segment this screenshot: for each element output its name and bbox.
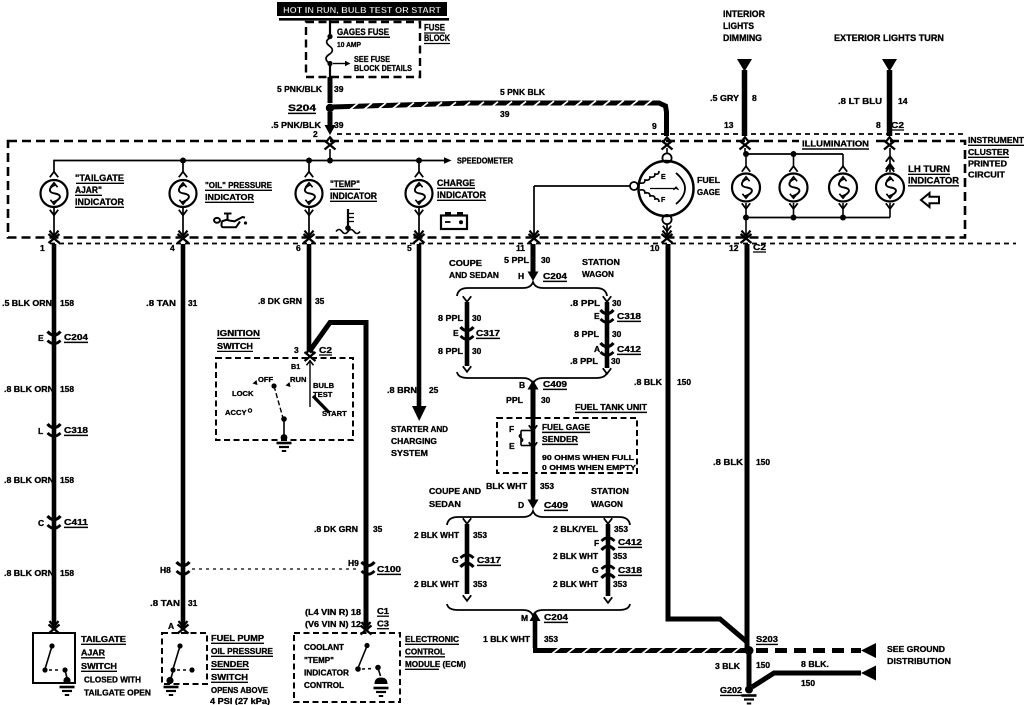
wire .5 GRY 8 to pin 13 xyxy=(742,70,748,136)
svg-text:C2: C2 xyxy=(753,242,766,252)
label .8 BLK ORN 158 third xyxy=(4,568,74,578)
svg-text:353: 353 xyxy=(614,524,628,534)
svg-text:35: 35 xyxy=(315,296,325,306)
label IGNITION SWITCH xyxy=(217,328,260,351)
svg-text:G: G xyxy=(452,555,459,565)
svg-text:C204: C204 xyxy=(544,612,568,622)
svg-text:DIMMING: DIMMING xyxy=(723,33,762,43)
svg-text:.8 TAN: .8 TAN xyxy=(150,598,180,608)
cluster connector dashed line top C2 xyxy=(337,133,964,135)
fuel pump switch contacts xyxy=(166,643,194,684)
svg-text:5 PPL: 5 PPL xyxy=(504,255,529,265)
svg-text:10: 10 xyxy=(650,243,660,253)
svg-text:L: L xyxy=(38,426,43,436)
svg-text:14: 14 xyxy=(898,96,908,106)
svg-text:E: E xyxy=(509,441,515,451)
svg-text:"TEMP": "TEMP" xyxy=(304,656,334,665)
svg-text:9: 9 xyxy=(652,121,657,131)
wire .8 LT BLU 14 to pin 8 xyxy=(887,70,893,136)
svg-text:"TAILGATE: "TAILGATE xyxy=(75,173,124,183)
svg-text:8: 8 xyxy=(876,120,881,130)
svg-text:30: 30 xyxy=(612,329,622,339)
svg-text:39: 39 xyxy=(334,84,344,94)
wagon branch wire 2 BLK/YEL 353 xyxy=(604,518,612,603)
illumination top bus xyxy=(743,151,843,166)
svg-text:C411: C411 xyxy=(64,517,88,527)
svg-text:353: 353 xyxy=(613,551,627,561)
connector C317 pin G lower xyxy=(452,555,501,567)
svg-text:E: E xyxy=(594,311,600,321)
svg-text:SENDER: SENDER xyxy=(211,659,250,669)
svg-text:5 PNK BLK: 5 PNK BLK xyxy=(500,87,546,97)
svg-text:E: E xyxy=(661,174,666,181)
tailgate ajar switch box xyxy=(33,633,75,683)
harness merge brace lower xyxy=(447,604,630,616)
LH turn arrow icon xyxy=(921,193,939,207)
connector C318 pin L xyxy=(38,424,88,436)
off-page arrow: interior lights dimming xyxy=(737,59,752,72)
svg-text:LOCK: LOCK xyxy=(232,389,254,398)
cluster bottom pin labels xyxy=(40,242,766,253)
svg-text:AJAR": AJAR" xyxy=(75,185,102,195)
label 5 PNK/BLK 39 upper xyxy=(277,84,344,94)
svg-text:30: 30 xyxy=(541,395,551,405)
pin 13 entry arrow xyxy=(740,137,751,155)
svg-text:90 OHMS WHEN FULL: 90 OHMS WHEN FULL xyxy=(542,453,634,462)
svg-text:C318: C318 xyxy=(64,425,88,435)
svg-text:SPEEDOMETER: SPEEDOMETER xyxy=(457,156,513,166)
connector C409 pin D (arrow down) xyxy=(518,500,568,511)
svg-text:CLUSTER: CLUSTER xyxy=(968,147,1010,157)
svg-text:CONTROL: CONTROL xyxy=(304,681,344,690)
pin 11 exit arrow xyxy=(529,231,540,243)
pin 2 entry arrow xyxy=(325,137,336,160)
pin 8 entry arrow xyxy=(884,137,895,172)
label .8 BLK ORN 158 second xyxy=(4,475,74,485)
label 3 C2 xyxy=(294,345,332,355)
off-page arrow: exterior lights turn xyxy=(882,59,897,72)
svg-text:C3: C3 xyxy=(377,619,389,629)
label 9 xyxy=(652,121,657,131)
svg-text:M: M xyxy=(521,613,528,623)
svg-text:C409: C409 xyxy=(544,500,568,510)
svg-text:FUEL TANK UNIT: FUEL TANK UNIT xyxy=(575,402,648,412)
pin 12 exit arrow xyxy=(741,231,752,243)
svg-text:(L4 VIN R) 18: (L4 VIN R) 18 xyxy=(305,608,362,617)
svg-text:H8: H8 xyxy=(160,565,171,575)
svg-text:C409: C409 xyxy=(543,379,567,389)
svg-text:150: 150 xyxy=(677,377,691,387)
wire PPL 30 to fuel tank unit xyxy=(531,389,536,418)
svg-text:CONTROL: CONTROL xyxy=(405,647,446,657)
svg-text:C318: C318 xyxy=(617,311,641,321)
svg-text:353: 353 xyxy=(540,481,554,491)
pin exit arrow under oil pressure indicator xyxy=(178,231,189,243)
label 5 PNK BLK 39 xyxy=(500,87,546,119)
wire 8 BLK 150 branch to ground distribution xyxy=(752,673,861,687)
label .8 DK GRN 35 xyxy=(258,296,325,306)
svg-text:HOT IN RUN, BULB TEST OR START: HOT IN RUN, BULB TEST OR START xyxy=(283,5,442,15)
svg-text:12: 12 xyxy=(729,243,739,253)
svg-text:3: 3 xyxy=(294,345,299,355)
wire: fuse to S204 xyxy=(329,66,331,103)
connector C204 pin E xyxy=(38,332,88,344)
svg-text:S203: S203 xyxy=(756,634,778,644)
svg-text:13: 13 xyxy=(724,120,734,130)
label ILLUMINATION xyxy=(799,137,873,149)
label 10 AMP xyxy=(337,40,361,49)
svg-text:INDICATOR: INDICATOR xyxy=(205,192,255,202)
connector C411 pin C xyxy=(38,516,88,528)
svg-text:2 BLK WHT: 2 BLK WHT xyxy=(414,530,460,540)
svg-text:FUEL PUMP: FUEL PUMP xyxy=(211,633,264,643)
svg-text:INDICATOR: INDICATOR xyxy=(75,197,124,207)
svg-text:(V6 VIN N) 12: (V6 VIN N) 12 xyxy=(305,620,362,629)
svg-text:SEE GROUND: SEE GROUND xyxy=(887,644,945,654)
svg-text:4: 4 xyxy=(170,243,175,253)
svg-text:"TEMP": "TEMP" xyxy=(330,179,360,189)
svg-text:STATION: STATION xyxy=(582,257,620,267)
svg-text:INDICATOR: INDICATOR xyxy=(304,669,349,678)
indicator lamp: oil pressure xyxy=(170,172,197,235)
svg-text:OPENS ABOVE: OPENS ABOVE xyxy=(211,685,268,695)
wire: header to gages fuse xyxy=(327,21,332,40)
svg-text:CHARGE: CHARGE xyxy=(437,178,475,188)
svg-text:8 PPL: 8 PPL xyxy=(438,313,463,323)
ECM entry arrow xyxy=(361,622,372,634)
svg-text:SYSTEM: SYSTEM xyxy=(391,448,428,458)
fuel tank unit dashed box xyxy=(497,418,637,473)
svg-text:8 BLK.: 8 BLK. xyxy=(801,659,829,669)
svg-text:150: 150 xyxy=(756,457,770,467)
wire .5 BLK ORN 158 tailgate circuit xyxy=(52,244,57,630)
svg-text:3 BLK: 3 BLK xyxy=(715,661,740,671)
harness merge brace xyxy=(457,372,607,384)
label SEE GROUND DISTRIBUTION xyxy=(887,644,951,666)
label STARTER AND CHARGING SYSTEM xyxy=(391,424,448,458)
svg-text:2 BLK WHT: 2 BLK WHT xyxy=(553,579,599,589)
wire .8 BRN 25 to starter and charging system xyxy=(412,244,427,421)
svg-text:PRINTED: PRINTED xyxy=(968,159,1007,169)
svg-text:F: F xyxy=(661,197,666,204)
svg-text:8 PPL: 8 PPL xyxy=(438,346,463,356)
fuel gage xyxy=(630,153,694,224)
svg-text:AJAR: AJAR xyxy=(81,648,106,658)
label .8 TAN 31 lower xyxy=(150,598,198,608)
svg-text:AND SEDAN: AND SEDAN xyxy=(449,270,499,280)
label INTERIOR LIGHTS DIMMING xyxy=(723,9,765,43)
label FUEL PUMP OIL PRESSURE SENDER SWITCH xyxy=(210,633,273,705)
svg-text:COUPE AND: COUPE AND xyxy=(429,486,481,496)
svg-text:F: F xyxy=(509,424,514,434)
dashed ground wire to ground distribution xyxy=(756,648,861,653)
wire .8 DK GRN 35 xyxy=(307,244,312,351)
svg-text:353: 353 xyxy=(613,579,627,589)
connector C412 pin A xyxy=(594,343,641,355)
pin exit arrow under temp indicator xyxy=(304,231,315,243)
svg-text:D: D xyxy=(518,500,524,510)
svg-text:EXTERIOR LIGHTS TURN: EXTERIOR LIGHTS TURN xyxy=(834,33,944,43)
wire 1 BLK WHT 353 to S203 xyxy=(533,621,538,648)
fuse GAGES FUSE 10 AMP xyxy=(326,38,333,66)
svg-text:2 BLK WHT: 2 BLK WHT xyxy=(414,579,460,589)
label ELECTRONIC CONTROL MODULE (ECM) xyxy=(405,634,466,669)
tailgate ajar switch entry arrow xyxy=(49,621,60,633)
svg-text:BLK WHT: BLK WHT xyxy=(486,481,528,491)
wire: ignition switch feed bend xyxy=(309,320,366,569)
label FUEL TANK UNIT xyxy=(575,402,648,412)
svg-text:39: 39 xyxy=(500,109,510,119)
svg-text:C412: C412 xyxy=(617,344,641,354)
label OIL PRESSURE INDICATOR xyxy=(205,180,272,202)
svg-text:158: 158 xyxy=(60,384,74,394)
svg-text:C2: C2 xyxy=(319,345,332,355)
svg-text:FUEL GAGE: FUEL GAGE xyxy=(542,422,590,432)
svg-text:353: 353 xyxy=(544,634,558,644)
svg-text:LIGHTS: LIGHTS xyxy=(723,21,754,31)
svg-text:35: 35 xyxy=(373,524,383,534)
connector C412 pin F lower xyxy=(594,537,642,550)
svg-text:5: 5 xyxy=(407,243,412,253)
svg-text:PPL: PPL xyxy=(506,395,523,405)
svg-text:.8 BLK ORN: .8 BLK ORN xyxy=(4,568,54,578)
svg-text:STATION: STATION xyxy=(591,486,629,496)
svg-text:SEDAN: SEDAN xyxy=(429,499,461,509)
svg-text:2 BLK WHT: 2 BLK WHT xyxy=(553,551,599,561)
tailgate switch ground xyxy=(60,687,75,695)
label (L4 VIN R) 18 / (V6 VIN N) 12 C1 C3 xyxy=(305,606,389,629)
svg-text:ACCY: ACCY xyxy=(225,408,247,417)
label EXTERIOR LIGHTS TURN xyxy=(834,33,944,43)
svg-text:B: B xyxy=(519,380,525,390)
off-page arrow see ground distribution xyxy=(861,643,876,658)
label 2 xyxy=(313,129,318,139)
connector C318 pin G lower xyxy=(592,565,642,578)
oil can icon xyxy=(214,214,247,228)
hatched ground wire to S203 xyxy=(533,647,746,653)
coolant temp indicator control switch xyxy=(304,643,388,690)
svg-text:ELECTRONIC: ELECTRONIC xyxy=(405,634,460,644)
svg-text:INTERIOR: INTERIOR xyxy=(723,9,765,19)
wire .8 DK GRN 35 to ECM xyxy=(314,524,383,534)
svg-text:C412: C412 xyxy=(618,537,642,547)
coupe branch wire 8 PPL 30 xyxy=(463,296,471,372)
svg-text:INDICATOR: INDICATOR xyxy=(330,191,377,201)
svg-text:COOLANT: COOLANT xyxy=(304,643,344,652)
svg-text:8 PPL: 8 PPL xyxy=(574,329,599,339)
speedometer arrow xyxy=(444,156,513,166)
svg-text:10 AMP: 10 AMP xyxy=(337,40,361,49)
svg-text:.8 DK GRN: .8 DK GRN xyxy=(314,524,358,534)
svg-text:INSTRUMENT: INSTRUMENT xyxy=(968,135,1024,145)
label STATION WAGON xyxy=(582,257,620,279)
svg-text:30: 30 xyxy=(611,356,621,366)
label GAGES FUSE xyxy=(337,27,390,37)
harness split brace top xyxy=(457,282,607,296)
splice S204 xyxy=(288,103,334,113)
temp gauge icon xyxy=(336,209,360,234)
connector C204 pin H (arrow down) xyxy=(518,271,567,281)
fuse block dashed box xyxy=(306,22,420,77)
off-page arrow see ground distribution 2 xyxy=(861,666,876,681)
ignition switch dashed box xyxy=(216,358,353,440)
svg-text:158: 158 xyxy=(60,568,74,578)
indicator lamp: tailgate ajar xyxy=(41,172,68,235)
svg-text:STARTER AND: STARTER AND xyxy=(391,424,448,434)
svg-text:COUPE: COUPE xyxy=(449,258,482,268)
svg-text:BLOCK: BLOCK xyxy=(424,33,450,44)
wire: S204 feed to fuel gage pin 9 (hatched) xyxy=(332,100,667,136)
svg-text:TAILGATE OPEN: TAILGATE OPEN xyxy=(84,688,151,698)
svg-text:LH TURN: LH TURN xyxy=(908,164,950,174)
svg-text:C318: C318 xyxy=(618,565,642,575)
splice S203 xyxy=(745,634,779,655)
wire BLK WHT 353 below fuel tank unit xyxy=(531,449,536,500)
svg-text:.8 PPL: .8 PPL xyxy=(570,298,600,308)
connector C100 pin H9 xyxy=(348,558,401,574)
svg-text:GAGE: GAGE xyxy=(697,187,720,197)
svg-text:.5 BLK ORN: .5 BLK ORN xyxy=(2,298,52,308)
svg-text:A: A xyxy=(168,621,174,631)
svg-text:.8 BLK ORN: .8 BLK ORN xyxy=(4,475,54,485)
svg-text:IGNITION: IGNITION xyxy=(217,328,260,338)
svg-text:30: 30 xyxy=(472,346,482,356)
pin exit arrow under charge indicator xyxy=(414,231,425,243)
svg-text:353: 353 xyxy=(473,530,487,540)
svg-text:30: 30 xyxy=(612,298,622,308)
ground G202 xyxy=(720,685,757,704)
svg-text:G: G xyxy=(592,565,599,575)
svg-text:BLOCK DETAILS: BLOCK DETAILS xyxy=(354,64,413,73)
svg-text:FUEL: FUEL xyxy=(697,175,721,185)
svg-text:.8 BLK: .8 BLK xyxy=(634,377,662,387)
label FUEL GAGE xyxy=(697,175,721,197)
label COUPE AND SEDAN lower xyxy=(429,486,481,509)
svg-text:RUN: RUN xyxy=(290,375,306,384)
label 13 xyxy=(724,120,734,130)
wire 3 BLK 150 S203 to G202 xyxy=(747,654,752,686)
indicator lamp: charge xyxy=(406,172,433,235)
svg-text:11: 11 xyxy=(516,243,525,253)
label 8 C2 xyxy=(876,120,904,130)
svg-text:C317: C317 xyxy=(477,555,501,565)
svg-text:SEE FUSE: SEE FUSE xyxy=(354,55,391,64)
svg-text:DISTRIBUTION: DISTRIBUTION xyxy=(887,656,951,666)
illumination bottom bus xyxy=(743,215,890,236)
svg-text:0 OHMS WHEN EMPTY: 0 OHMS WHEN EMPTY xyxy=(542,463,636,472)
svg-text:31: 31 xyxy=(188,298,198,308)
wire .8 BLK 150 from pin 10 xyxy=(668,244,747,642)
svg-text:FUSE: FUSE xyxy=(424,23,445,34)
svg-text:2: 2 xyxy=(313,129,318,139)
coupe branch wire 2 BLK WHT 353 xyxy=(463,518,471,601)
svg-text:.8 BRN: .8 BRN xyxy=(387,385,417,395)
svg-text:E: E xyxy=(453,328,459,338)
label .5 PNK/BLK 39 lower xyxy=(271,120,344,130)
svg-text:SWITCH: SWITCH xyxy=(217,341,253,351)
svg-text:.8 LT BLU: .8 LT BLU xyxy=(838,96,882,106)
label STATION WAGON lower xyxy=(591,486,629,509)
svg-text:CLOSED WITH: CLOSED WITH xyxy=(84,675,141,685)
svg-text:WAGON: WAGON xyxy=(582,269,614,279)
svg-text:H9: H9 xyxy=(348,558,359,568)
pin 10 exit arrow xyxy=(662,231,673,243)
cluster connector dashed line bottom xyxy=(50,243,1016,245)
wiring diagram: power feed header HOT IN RUN BULB TEST OR START xyxy=(277,2,449,21)
label INSTRUMENT CLUSTER PRINTED CIRCUIT xyxy=(968,135,1024,180)
svg-text:8: 8 xyxy=(752,93,757,103)
label .8 TAN 31 xyxy=(146,298,198,308)
label .5 BLK ORN 158 xyxy=(2,298,74,308)
cluster feed bus wire xyxy=(54,158,444,174)
svg-text:.8 BLK: .8 BLK xyxy=(713,457,743,467)
svg-text:BULB: BULB xyxy=(313,381,335,390)
battery icon xyxy=(441,212,467,229)
svg-text:.8 PPL: .8 PPL xyxy=(570,356,598,366)
svg-text:CHARGING: CHARGING xyxy=(391,436,437,446)
svg-text:E: E xyxy=(38,333,44,343)
ECM ground xyxy=(374,688,389,696)
label TAILGATE AJAR SWITCH xyxy=(81,634,151,698)
label A xyxy=(168,621,174,631)
fuel pump switch ground xyxy=(164,687,179,695)
wire: S204 down to instrument cluster pin 2 xyxy=(325,112,336,135)
ignition switch entry arrow xyxy=(305,349,316,361)
label COUPE AND SEDAN xyxy=(449,258,499,280)
wagon branch wire .8 PPL 30 xyxy=(603,296,611,374)
svg-text:S204: S204 xyxy=(288,103,316,113)
svg-text:H: H xyxy=(518,271,524,281)
svg-text:GAGES FUSE: GAGES FUSE xyxy=(337,27,389,37)
wire below C100 to ECM xyxy=(364,569,369,631)
label TAILGATE AJAR INDICATOR xyxy=(75,173,124,207)
svg-text:INDICATOR: INDICATOR xyxy=(437,190,486,200)
svg-text:CIRCUIT: CIRCUIT xyxy=(968,170,1006,180)
pin 9 entry arrow xyxy=(662,137,673,153)
wire .8 BLK 150 from pin 12 xyxy=(745,244,750,648)
label CHARGE INDICATOR xyxy=(437,178,486,200)
svg-text:150: 150 xyxy=(801,678,815,688)
svg-text:F: F xyxy=(594,538,599,548)
svg-text:C1: C1 xyxy=(377,606,389,616)
connector C317 pin E xyxy=(453,327,500,339)
illumination bulbs xyxy=(732,166,760,217)
svg-text:WAGON: WAGON xyxy=(591,499,623,509)
svg-text:C204: C204 xyxy=(543,271,567,281)
svg-text:158: 158 xyxy=(60,475,74,485)
svg-text:C: C xyxy=(38,518,44,528)
electronic control module dashed box xyxy=(294,633,400,702)
svg-text:.8 TAN: .8 TAN xyxy=(146,298,176,308)
connector C318 pin E xyxy=(594,310,641,322)
svg-text:.8 DK GRN: .8 DK GRN xyxy=(258,296,302,306)
harness split brace lower xyxy=(447,511,630,525)
svg-text:OIL PRESSURE: OIL PRESSURE xyxy=(211,646,273,656)
tailgate ajar switch contacts xyxy=(42,643,70,684)
connector C100 pin H8 xyxy=(160,562,190,575)
svg-text:C317: C317 xyxy=(476,328,500,338)
svg-text:ILLUMINATION: ILLUMINATION xyxy=(802,139,869,149)
ignition switch ground xyxy=(277,443,292,451)
fuel gage sender resistor xyxy=(509,418,537,451)
wire: fuel gage sender side to pin 11 xyxy=(534,186,630,235)
svg-text:.5 GRY: .5 GRY xyxy=(710,93,739,103)
svg-text:OFF: OFF xyxy=(258,375,274,384)
svg-text:SWITCH: SWITCH xyxy=(211,672,248,682)
svg-text:25: 25 xyxy=(429,385,439,395)
connector C409 pin B (arrow up) xyxy=(519,379,567,390)
svg-text:MODULE (ECM): MODULE (ECM) xyxy=(405,659,466,669)
